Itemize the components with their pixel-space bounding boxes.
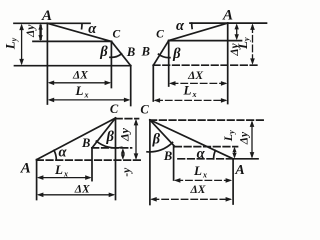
dimension dy (diagram 4) <box>250 120 255 158</box>
wire A-C (diagram 1) <box>47 23 111 41</box>
svg-text:A: A <box>41 8 52 24</box>
wire A-C (diagram 2) <box>169 23 228 40</box>
projection below A (diagram 4) <box>232 159 234 204</box>
svg-text:C: C <box>112 28 120 40</box>
level line through C (diagram 3) <box>116 118 139 120</box>
wire A-C (diagram 3) <box>37 118 116 160</box>
angle beta arc (diagram 2) <box>159 54 170 57</box>
node A top line (diagram 1) <box>14 22 90 24</box>
dimension dx (diagram 2) <box>169 81 227 86</box>
dimension Ly (diagram 2) <box>250 23 255 65</box>
svg-text:ΔX: ΔX <box>74 184 90 196</box>
dimension Lx (diagram 1) <box>48 98 131 103</box>
projection below B (diagram 1) <box>130 66 132 106</box>
projection below C (diagram 3) <box>115 118 117 200</box>
wire A-C (diagram 4) <box>150 120 233 159</box>
level line through C (diagram 1) <box>33 40 111 42</box>
svg-text:Δy: Δy <box>238 131 250 145</box>
svg-text:β: β <box>152 132 161 148</box>
projection below C (diagram 4) <box>149 120 151 205</box>
angle beta arc (diagram 1) <box>110 54 122 58</box>
dimension dy (diagram 1) <box>38 24 42 41</box>
svg-text:Lx: Lx <box>75 83 89 100</box>
svg-text:C: C <box>156 29 164 41</box>
wire C-B (diagram 3) <box>92 118 116 148</box>
level line through B (diagram 2) <box>153 64 258 66</box>
svg-text:A: A <box>234 163 244 178</box>
svg-text:α: α <box>58 144 67 160</box>
svg-text:β: β <box>99 44 108 60</box>
svg-text:α: α <box>197 146 206 162</box>
svg-text:B: B <box>163 149 172 163</box>
svg-text:Ly: Ly <box>235 37 251 50</box>
wire C-B (diagram 1) <box>111 41 130 65</box>
dimension dy (diagram 2) <box>235 23 239 40</box>
angle alpha arc (diagram 4) <box>214 151 216 159</box>
dimension Ly (diagram 4) <box>232 147 236 159</box>
svg-text:B: B <box>126 45 135 59</box>
baseline right of A (diagram 4) <box>233 158 258 160</box>
svg-text:Δy: Δy <box>25 24 37 38</box>
svg-text:Ly: Ly <box>3 37 19 50</box>
svg-text:Lx: Lx <box>54 162 68 179</box>
svg-text:A: A <box>20 160 31 176</box>
wire C-B (diagram 2) <box>153 41 168 66</box>
dimension minus-y (diagram 3) <box>121 148 125 160</box>
svg-text:ΔX: ΔX <box>190 184 206 196</box>
projection below A (diagram 3) <box>36 160 38 200</box>
node A top line (diagram 2) <box>190 22 267 24</box>
dimension dx (diagram 3) <box>37 193 115 198</box>
svg-text:ΔX: ΔX <box>187 70 203 82</box>
baseline through A (diagram 4) <box>178 158 233 160</box>
wire C-B (diagram 4) <box>150 120 175 147</box>
projection below A (diagram 1) <box>46 23 48 104</box>
level line through B (diagram 1) <box>15 65 131 67</box>
svg-text:Lx: Lx <box>193 163 207 180</box>
level line through C (diagram 4) <box>150 119 264 121</box>
baseline through A (diagram 3) <box>37 159 143 161</box>
angle alpha arc (diagram 1) <box>81 23 83 28</box>
projection below B (diagram 3) <box>91 148 93 181</box>
angle beta arc (diagram 3) <box>96 141 121 148</box>
dimension Lx (diagram 4) <box>174 178 232 183</box>
angle beta arc (diagram 4) <box>147 143 172 152</box>
svg-text:B: B <box>141 44 150 58</box>
dimension Ly (diagram 1) <box>19 24 24 66</box>
level line through B (diagram 3) <box>92 147 132 149</box>
angle alpha arc (diagram 3) <box>54 150 56 159</box>
dimension dy (diagram 3) <box>134 119 139 160</box>
projection below C (diagram 1) <box>110 41 112 87</box>
svg-text:β: β <box>172 46 181 62</box>
angle alpha arc (diagram 2) <box>191 23 193 28</box>
svg-text:A: A <box>222 8 233 24</box>
svg-text:C: C <box>140 103 149 117</box>
svg-text:Lx: Lx <box>183 83 197 100</box>
dimension Lx (diagram 3) <box>37 175 92 180</box>
svg-text:Ly: Ly <box>221 130 236 142</box>
svg-text:ΔX: ΔX <box>72 69 88 81</box>
dimension Lx (diagram 2) <box>154 98 228 103</box>
level line through C (diagram 2) <box>169 40 242 42</box>
svg-text:Δy: Δy <box>118 127 132 142</box>
svg-text:C: C <box>110 102 119 116</box>
svg-text:α: α <box>176 18 185 34</box>
svg-text:β: β <box>105 129 114 145</box>
dimension dx (diagram 4) <box>150 197 232 202</box>
projection below B (diagram 2) <box>152 65 154 101</box>
svg-text:B: B <box>81 136 90 150</box>
level line through B (diagram 4) <box>175 146 238 148</box>
svg-text:-y: -y <box>121 167 133 177</box>
svg-text:α: α <box>88 21 97 37</box>
projection below A (diagram 2) <box>227 23 229 103</box>
dimension dx (diagram 1) <box>48 81 111 86</box>
projection below C (diagram 2) <box>168 41 170 86</box>
projection below B (diagram 4) <box>173 147 175 181</box>
